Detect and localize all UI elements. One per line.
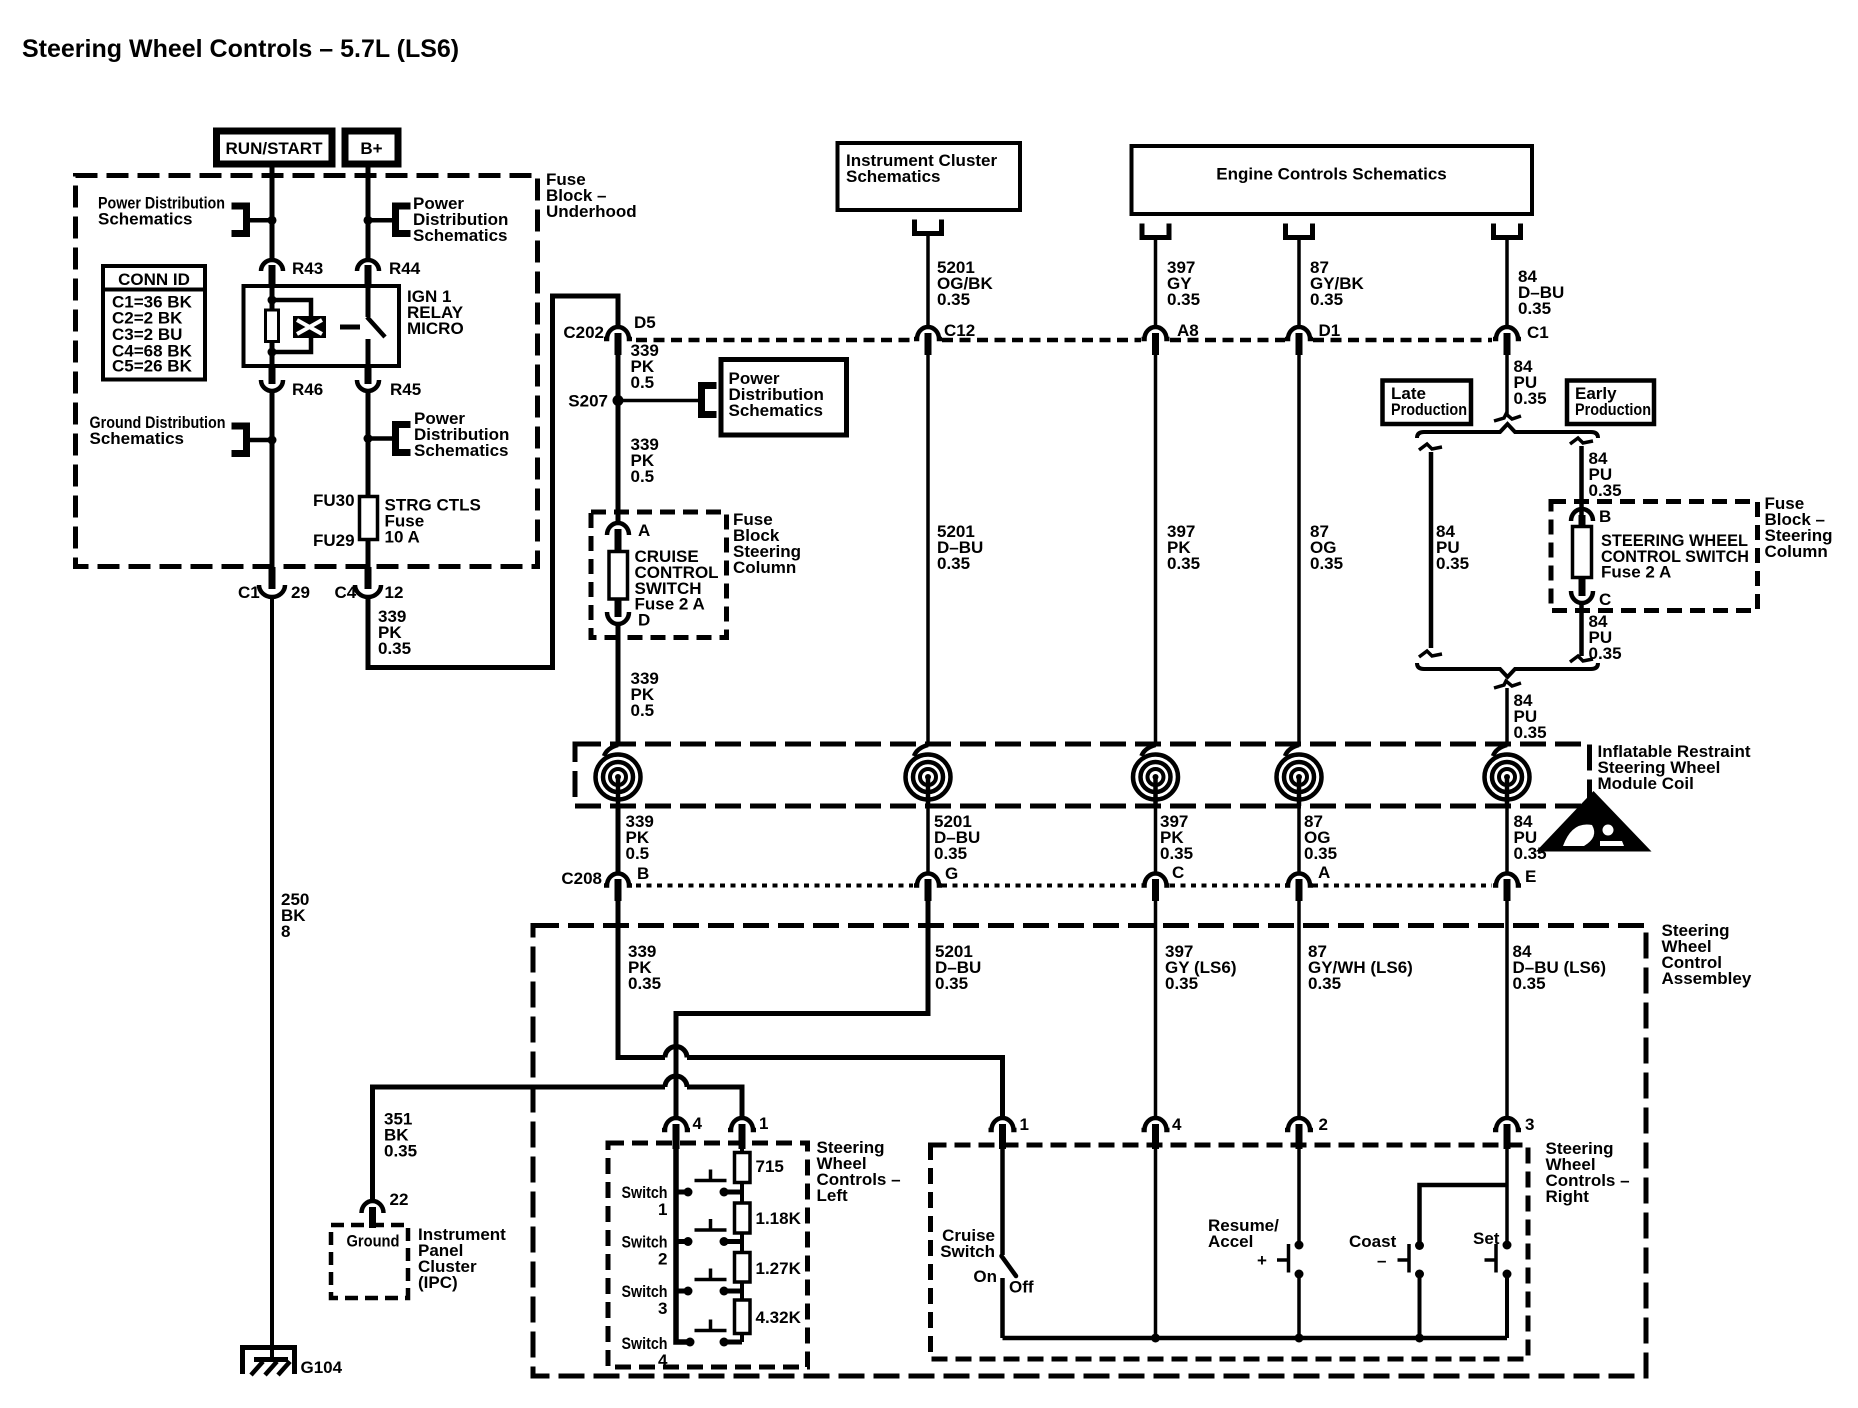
label 5201 D-BU 0.35 assembly	[935, 942, 981, 993]
svg-text:0.35: 0.35	[934, 844, 967, 863]
label 84 PU below C	[1589, 612, 1622, 663]
svg-text:R46: R46	[292, 380, 323, 399]
svg-text:Schematics: Schematics	[90, 429, 185, 448]
wire RUN/START down to relay R43	[270, 164, 275, 261]
svg-text:0.35: 0.35	[1310, 554, 1343, 573]
resume/accel switch	[1208, 1149, 1304, 1343]
connector row C202 dashed	[636, 338, 1492, 343]
svg-text:Ground: Ground	[347, 1232, 400, 1251]
wire 351 BK ground run to SWC left pin 1	[373, 1087, 743, 1200]
fuse block steering column dashed box	[591, 512, 727, 638]
label 250 BK 8	[281, 890, 309, 941]
connector SWC right pin 1	[989, 1115, 1029, 1149]
connector row C208 dotted	[636, 884, 1492, 888]
svg-text:0.35: 0.35	[1167, 290, 1200, 309]
switch 1 row	[622, 1170, 743, 1220]
wire 84 D-BU from C208 E to SWC right pin 3	[1505, 901, 1509, 1117]
wire coil5 to C208 E	[1505, 806, 1509, 873]
wire 339 PK from C4 pin 12 down right and up to C202	[378, 607, 411, 658]
svg-text:Fuse 2 A: Fuse 2 A	[1601, 563, 1671, 582]
svg-text:MICRO: MICRO	[407, 319, 464, 338]
relay coil K1	[293, 316, 326, 338]
svg-text:2: 2	[1319, 1115, 1328, 1134]
svg-text:Production: Production	[1391, 400, 1467, 419]
coil 1 (339 PK)	[596, 745, 641, 806]
wire coil1 to C208 B	[616, 806, 621, 873]
svg-text:3: 3	[658, 1299, 667, 1318]
fuse block steering column right dashed box	[1551, 502, 1758, 611]
svg-text:0.35: 0.35	[1165, 974, 1198, 993]
wire 87 OG D1 to coil	[1297, 355, 1301, 746]
wire 84 PU to coil	[1505, 688, 1509, 746]
svg-text:RUN/START: RUN/START	[226, 139, 324, 158]
svg-text:0.5: 0.5	[631, 701, 655, 720]
svg-text:12: 12	[385, 583, 404, 602]
coil 4 (87)	[1277, 745, 1322, 806]
svg-text:4: 4	[1172, 1115, 1182, 1134]
label 397 GY (LS6) assembly	[1165, 942, 1236, 993]
svg-text:Steering Wheel Controls – 5.7L: Steering Wheel Controls – 5.7L (LS6)	[22, 35, 459, 63]
connector C1 pin 29	[238, 567, 310, 602]
svg-text:Accel: Accel	[1208, 1232, 1253, 1251]
wire pin 3 to coast branch	[1420, 1185, 1508, 1245]
wire break above top brace	[1494, 414, 1521, 421]
svg-text:4.32K: 4.32K	[756, 1308, 802, 1327]
svg-text:Production: Production	[1575, 400, 1651, 419]
svg-text:0.35: 0.35	[1514, 723, 1547, 742]
node B+	[345, 131, 398, 164]
resistor 4.32K	[735, 1300, 802, 1334]
wire pin 3 down to set switch	[1505, 1149, 1509, 1245]
svg-text:C5=26 BK: C5=26 BK	[112, 357, 193, 376]
svg-text:0.35: 0.35	[1518, 299, 1551, 318]
svg-text:0.35: 0.35	[384, 1142, 417, 1161]
wire R46 down to C1	[270, 392, 275, 570]
svg-text:0.35: 0.35	[378, 639, 411, 658]
svg-text:C1: C1	[1527, 323, 1549, 342]
coast switch	[1349, 1232, 1424, 1343]
label 84 D-BU (LS6) assembly	[1513, 942, 1607, 993]
svg-text:–: –	[1377, 1251, 1386, 1270]
resistor 1.27K	[735, 1253, 802, 1283]
connector C208 pin G	[914, 864, 958, 901]
svg-text:Engine Controls Schematics: Engine Controls Schematics	[1216, 165, 1447, 184]
svg-text:0.35: 0.35	[628, 974, 661, 993]
label 87 GY/WH (LS6) assembly	[1308, 942, 1413, 993]
wire break late branch top	[1419, 444, 1442, 450]
relay switch blade	[366, 286, 371, 317]
connector C208 pin E	[1493, 867, 1536, 901]
connector 22 IPC ground	[362, 1190, 409, 1228]
svg-text:G: G	[945, 864, 958, 883]
label Instrument Panel Cluster (IPC)	[418, 1225, 506, 1292]
connector C202 pin C12	[914, 321, 975, 355]
svg-text:S207: S207	[568, 392, 608, 411]
label 339 PK 0.5 below S207	[631, 435, 659, 486]
svg-text:A8: A8	[1177, 321, 1199, 340]
connector R44	[357, 259, 421, 288]
svg-text:Off: Off	[1009, 1278, 1034, 1297]
svg-text:B+: B+	[360, 139, 382, 158]
svg-text:On: On	[973, 1267, 997, 1286]
svg-text:R44: R44	[389, 259, 421, 278]
node RUN/START	[217, 131, 333, 164]
coil 5 (84)	[1485, 745, 1530, 806]
inflatable restraint coil dashed box	[575, 744, 1590, 806]
connector C4 pin 12	[335, 567, 404, 602]
node tap to Power Distribution Schematics (left)	[98, 194, 277, 234]
svg-text:Column: Column	[1765, 542, 1828, 561]
resistor 715	[735, 1153, 784, 1183]
wire pin 4 right to bus	[1151, 1149, 1160, 1343]
connector R43	[261, 259, 323, 288]
svg-text:0.35: 0.35	[1589, 481, 1622, 500]
connector bracket engine box A8	[1142, 224, 1169, 238]
svg-text:0.5: 0.5	[626, 844, 650, 863]
svg-text:Underhood: Underhood	[546, 202, 637, 221]
node tap to Power Distribution Schematics (lower right)	[364, 409, 510, 460]
wire 5201 OG/BK to C12	[926, 234, 930, 327]
connector C202 pin C1	[1493, 323, 1549, 355]
svg-text:0.35: 0.35	[1589, 644, 1622, 663]
svg-text:715: 715	[756, 1157, 784, 1176]
wire coil3 to C208 C	[1154, 806, 1158, 873]
svg-text:Schematics: Schematics	[846, 167, 941, 186]
switch 2 row	[622, 1219, 743, 1269]
svg-text:Set: Set	[1473, 1229, 1500, 1248]
label 84 PU late branch	[1436, 522, 1469, 573]
wire 5201 OG/BK C12 to coil	[926, 355, 930, 746]
label 84 PU above coil	[1514, 691, 1547, 742]
connector bracket engine box D1	[1286, 224, 1313, 238]
svg-text:Assembley: Assembley	[1662, 969, 1752, 988]
resistor relay internal	[266, 310, 279, 342]
svg-text:A: A	[638, 521, 650, 540]
svg-text:D: D	[638, 611, 650, 630]
steering wheel controls right dashed box	[931, 1145, 1529, 1359]
wire 84 D-BU to C1	[1505, 238, 1509, 327]
label 397 PK mid	[1167, 522, 1200, 573]
wire break early branch bottom	[1570, 656, 1593, 662]
node Power Distribution Schematics box	[721, 360, 847, 436]
fuse block underhood dashed box	[76, 176, 538, 567]
node Ground box IPC	[331, 1225, 408, 1298]
wire early branch to B	[1579, 446, 1584, 522]
node tap to Power Distribution Schematics (right of B+)	[364, 194, 509, 245]
label 84 PU early top	[1589, 449, 1622, 500]
connector R46	[261, 366, 323, 399]
brace split top	[1417, 424, 1598, 438]
svg-text:0.35: 0.35	[937, 554, 970, 573]
svg-text:+: +	[1257, 1251, 1267, 1270]
wire coil2 to C208 G	[926, 806, 930, 873]
switch common bus	[1003, 1336, 1508, 1341]
svg-text:C202: C202	[563, 323, 604, 342]
node relay junction top	[268, 296, 277, 305]
wire hop 351 over pin4 wire	[665, 1076, 687, 1087]
label Steering Wheel Control Assembley	[1662, 921, 1752, 988]
wire 84 PU C1 down to break	[1505, 355, 1509, 414]
cruise switch	[940, 1149, 1034, 1338]
svg-text:0.35: 0.35	[1514, 844, 1547, 863]
wire 87 GY/WH from C208 A to SWC right pin 2	[1297, 901, 1301, 1117]
ground G104	[243, 1348, 343, 1378]
label Steering Wheel Controls Left	[817, 1138, 901, 1205]
svg-text:0.35: 0.35	[1310, 290, 1343, 309]
connector C202 pin D1	[1285, 321, 1340, 355]
svg-text:C208: C208	[561, 869, 602, 888]
svg-text:Right: Right	[1546, 1187, 1590, 1206]
svg-text:Coast: Coast	[1349, 1232, 1397, 1251]
wire R45 down to fuse FU30	[366, 392, 371, 497]
svg-text:0.35: 0.35	[935, 974, 968, 993]
svg-text:0.35: 0.35	[1513, 974, 1546, 993]
svg-text:R43: R43	[292, 259, 323, 278]
label Steering Wheel Controls Right	[1546, 1139, 1630, 1206]
wire 339 PK D5 to S207	[616, 355, 621, 522]
node Engine Controls Schematics box	[1132, 146, 1533, 214]
svg-text:C1: C1	[238, 583, 260, 602]
connector bracket engine box C1	[1494, 224, 1521, 238]
wire fuse to C4	[366, 540, 371, 571]
svg-text:3: 3	[1525, 1115, 1534, 1134]
connector B steering wheel fuse	[1571, 507, 1611, 533]
connector C208 pin C	[1142, 863, 1185, 901]
fuse CRUISE CONTROL SWITCH 2A	[609, 547, 719, 614]
wire 5201 D-BU from C208 G to SWC left pin 4	[676, 901, 928, 1117]
label 351 BK 0.35	[384, 1110, 417, 1161]
wire S207 tap to Power Distribution Schematics box	[618, 386, 717, 415]
svg-text:8: 8	[281, 922, 290, 941]
svg-text:4: 4	[693, 1114, 703, 1133]
relay U1 IGN 1 RELAY MICRO box	[244, 286, 400, 366]
node Instrument Cluster Schematics box	[838, 143, 1021, 210]
svg-text:A: A	[1318, 863, 1330, 882]
wire break below bottom brace	[1494, 681, 1521, 688]
connector D cruise fuse	[607, 599, 650, 630]
connector C208 pin B	[561, 864, 649, 901]
switch 3 row	[622, 1269, 743, 1319]
wire 397 GY to A8	[1154, 238, 1158, 327]
svg-text:10 A: 10 A	[385, 528, 420, 547]
wire B+ down to relay R44	[366, 164, 371, 261]
label Fuse Block Steering Column right	[1765, 494, 1833, 561]
svg-text:D5: D5	[634, 313, 656, 332]
connector SWC right pin 2	[1285, 1115, 1328, 1149]
svg-text:C: C	[1172, 863, 1184, 882]
connector SWC left pin 1	[728, 1114, 768, 1149]
label Inflatable Restraint Steering Wheel Module Coil	[1598, 742, 1751, 793]
svg-text:1: 1	[759, 1114, 768, 1133]
wire relay coil branch	[272, 300, 311, 352]
connector C208 pin A	[1285, 863, 1330, 901]
connector SWC left pin 4	[662, 1114, 703, 1149]
node Early Production	[1567, 381, 1654, 425]
svg-text:B: B	[637, 864, 649, 883]
svg-text:B: B	[1599, 507, 1611, 526]
wire 397 GY from C208 C to SWC right pin 4	[1154, 901, 1158, 1117]
wire relay internal left	[270, 286, 275, 366]
wire hop 339 over pin4 wire	[665, 1047, 687, 1058]
svg-text:FU29: FU29	[313, 531, 355, 550]
node relay junction bottom	[268, 348, 277, 357]
svg-text:0.35: 0.35	[1436, 554, 1469, 573]
resistor 1.18K	[735, 1203, 802, 1233]
node S207	[568, 392, 623, 411]
svg-text:1: 1	[658, 1200, 667, 1219]
svg-text:Schematics: Schematics	[413, 226, 508, 245]
wire 250 BK from C1 to G104	[270, 598, 274, 1360]
wire resistor chain	[740, 1149, 744, 1342]
connector SWC right pin 4	[1142, 1115, 1183, 1149]
svg-text:Left: Left	[817, 1186, 849, 1205]
svg-text:Schematics: Schematics	[98, 210, 193, 229]
svg-text:C12: C12	[944, 321, 975, 340]
svg-text:Schematics: Schematics	[729, 401, 824, 420]
wire 339 PK from C208 B to cruise switch pin 1	[618, 901, 1003, 1117]
svg-text:22: 22	[390, 1190, 409, 1209]
connector SWC right pin 3	[1493, 1115, 1534, 1149]
label 339 PK 0.35 assembly	[628, 942, 661, 993]
connector A cruise fuse	[607, 521, 650, 551]
steering wheel controls left dashed box	[608, 1143, 808, 1367]
set switch	[1473, 1229, 1512, 1338]
label Fuse Block Steering Column	[733, 510, 801, 577]
airbag warning triangle	[1536, 791, 1652, 852]
svg-text:0.35: 0.35	[937, 290, 970, 309]
svg-text:29: 29	[291, 583, 310, 602]
svg-text:1.18K: 1.18K	[756, 1209, 802, 1228]
svg-text:0.35: 0.35	[1308, 974, 1341, 993]
switch 4 row	[622, 1320, 743, 1371]
label 87 OG mid	[1310, 522, 1343, 573]
node Late Production	[1383, 381, 1472, 425]
svg-text:CONN ID: CONN ID	[118, 270, 190, 289]
svg-text:Schematics: Schematics	[414, 441, 509, 460]
svg-text:0.35: 0.35	[1304, 844, 1337, 863]
svg-text:D1: D1	[1319, 321, 1341, 340]
connector bracket under instrument cluster box	[915, 220, 942, 234]
svg-text:Module Coil: Module Coil	[1598, 774, 1694, 793]
svg-text:0.5: 0.5	[631, 467, 655, 486]
svg-text:(IPC): (IPC)	[418, 1273, 458, 1292]
brace merge bottom	[1417, 663, 1598, 677]
wire 87 GY/BK to D1	[1297, 238, 1301, 327]
coil 3 (397)	[1133, 745, 1178, 806]
wire coil4 to C208 A	[1297, 806, 1301, 873]
fuse STEERING WHEEL CONTROL SWITCH 2A	[1573, 527, 1750, 582]
label Fuse Block Underhood	[546, 170, 637, 221]
wire break early branch top	[1570, 438, 1593, 444]
node tap to Ground Distribution Schematics	[90, 413, 277, 454]
svg-text:R45: R45	[390, 380, 421, 399]
connector C steering wheel fuse	[1571, 578, 1611, 609]
svg-text:Switch: Switch	[940, 1242, 995, 1261]
wire late production branch	[1429, 452, 1434, 648]
wire C down to break	[1579, 604, 1584, 656]
wire 397 PK A8 to coil	[1154, 355, 1158, 746]
connector R45	[357, 366, 421, 399]
steering wheel control assembly dashed box	[533, 926, 1646, 1377]
svg-text:G104: G104	[301, 1358, 343, 1377]
svg-text:2: 2	[658, 1250, 667, 1269]
label 5201 D-BU mid	[937, 522, 983, 573]
svg-text:0.35: 0.35	[1167, 554, 1200, 573]
wire 339 PK D to coil	[616, 625, 621, 746]
svg-text:1: 1	[1020, 1115, 1029, 1134]
wire break late branch bottom	[1419, 651, 1442, 657]
CONN ID table	[103, 266, 205, 380]
svg-text:Column: Column	[733, 558, 796, 577]
svg-text:0.35: 0.35	[1160, 844, 1193, 863]
svg-text:C4: C4	[335, 583, 357, 602]
svg-text:0.5: 0.5	[631, 373, 655, 392]
svg-text:0.35: 0.35	[1514, 389, 1547, 408]
connector C202 pin D5	[563, 313, 655, 355]
svg-text:4: 4	[658, 1351, 668, 1370]
svg-text:1.27K: 1.27K	[756, 1259, 802, 1278]
svg-text:E: E	[1525, 867, 1536, 886]
wire SWC left bus	[676, 1149, 693, 1342]
connector C202 pin A8	[1142, 321, 1199, 355]
wire relay coil dash link	[340, 325, 360, 330]
svg-text:C: C	[1599, 590, 1611, 609]
coil 2 (5201)	[906, 745, 951, 806]
fuse FU30/FU29 STRG CTLS 10A	[313, 491, 481, 550]
svg-text:FU30: FU30	[313, 491, 355, 510]
